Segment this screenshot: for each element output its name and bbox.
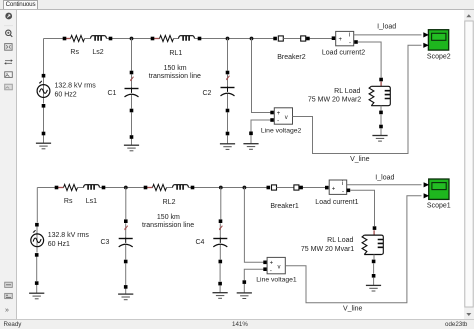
block Load current2 (332, 36, 336, 40)
ground under source2 (42, 132, 46, 136)
wire line voltage1 - to ground (244, 269, 263, 293)
capacitor C1 (130, 71, 134, 75)
tab bar (0, 0, 474, 10)
svg-text:Breaker1: Breaker1 (270, 203, 299, 210)
svg-text:RL Load: RL Load (334, 88, 360, 95)
node junction C4 (219, 186, 223, 190)
svg-text:I_load: I_load (377, 24, 396, 31)
ground C3 (124, 285, 128, 289)
svg-text:V_line: V_line (343, 305, 363, 312)
svg-text:i: i (349, 32, 350, 38)
svg-text:-: - (277, 119, 279, 125)
svg-text:»: » (5, 307, 9, 314)
wire to RL load1 (347, 189, 351, 193)
wire line voltage2 - to ground (251, 120, 271, 144)
svg-text:C2: C2 (203, 90, 212, 97)
voltage source AC2 (37, 81, 50, 98)
svg-text:75 MW 20 Mvar1: 75 MW 20 Mvar1 (301, 246, 354, 253)
svg-text:i: i (342, 181, 343, 187)
svg-text:V_line: V_line (350, 156, 370, 163)
svg-text:132.8 kV rms: 132.8 kV rms (48, 232, 90, 239)
svg-text:60 Hz2: 60 Hz2 (55, 92, 77, 99)
svg-text:+: + (277, 111, 281, 117)
wire V_line (bottom) (285, 196, 421, 303)
capacitor C2 (226, 71, 230, 75)
sidebar icon: browser circle (5, 13, 12, 20)
RL load1 parallel branch (373, 226, 377, 230)
svg-text:Ls1: Ls1 (86, 198, 97, 205)
svg-text:v: v (278, 265, 281, 271)
wire to RL load2 (354, 40, 358, 44)
wire C2 branch (227, 39, 229, 144)
svg-text:v: v (285, 115, 288, 121)
svg-text:-: - (342, 189, 344, 195)
resistor-inductor branch RL2 (146, 187, 153, 189)
left toolbar strip (0, 10, 17, 319)
svg-text:C1: C1 (108, 90, 117, 97)
svg-text:Rs: Rs (64, 198, 73, 205)
wire I_load (bottom) (347, 184, 422, 186)
svg-text:Scope2: Scope2 (427, 53, 451, 60)
wire + ground RL load2 (380, 114, 382, 135)
ground C2 (226, 132, 230, 136)
node junction C2 (226, 37, 230, 41)
resistor Rs (top) (65, 38, 71, 40)
breaker Breaker1 (267, 185, 303, 190)
sidebar icon: image grayed (5, 84, 13, 90)
block Load current1 (325, 186, 329, 190)
node junction C1 (130, 37, 134, 41)
scope Scope2 (428, 30, 448, 50)
wire C3 branch (125, 188, 127, 295)
svg-text:Ls2: Ls2 (92, 49, 103, 56)
wire source1 vertical (36, 188, 39, 294)
inductor Ls1 (84, 185, 100, 190)
svg-text:Line voltage2: Line voltage2 (261, 127, 302, 134)
block Line voltage2 (270, 111, 274, 115)
svg-text:transmission line: transmission line (142, 222, 194, 229)
block Line voltage1 (263, 261, 267, 265)
svg-text:-: - (270, 268, 272, 274)
sidebar icon: image (5, 72, 13, 78)
svg-text:RL1: RL1 (169, 50, 182, 57)
wire C1 branch (131, 39, 133, 146)
svg-text:transmission line: transmission line (149, 73, 201, 80)
sidebar icon: fit view (5, 44, 12, 51)
svg-text:132.8 kV rms: 132.8 kV rms (55, 83, 97, 90)
sidebar bottom icons (5, 282, 13, 287)
scope Scope1 (429, 179, 449, 199)
ground line voltage1 (243, 280, 247, 284)
svg-text:Line voltage1: Line voltage1 (256, 277, 297, 284)
svg-text:RL Load: RL Load (327, 237, 353, 244)
status bar (0, 319, 474, 329)
svg-text:+: + (270, 261, 274, 267)
wire bottom bus (37, 187, 325, 189)
svg-text:C3: C3 (101, 239, 110, 246)
svg-text:+: + (339, 37, 343, 43)
ground line voltage2 (249, 132, 253, 136)
svg-text:150 km: 150 km (157, 214, 180, 221)
svg-text:Breaker2: Breaker2 (277, 54, 306, 61)
svg-text:75 MW 20 Mvar2: 75 MW 20 Mvar2 (308, 97, 361, 104)
resistor-inductor branch RL1 (153, 38, 160, 40)
wire to line voltage2 + (252, 39, 271, 113)
svg-text:Rs: Rs (70, 49, 79, 56)
svg-text:-: - (349, 41, 351, 47)
ground under source1 (35, 281, 39, 285)
node junction line voltage2 feed (250, 37, 254, 41)
capacitor C4 (219, 219, 223, 223)
svg-text:Load current2: Load current2 (322, 50, 365, 57)
node junction C3 (124, 186, 128, 190)
breaker Breaker2 (273, 36, 309, 41)
capacitor C3 (124, 219, 128, 223)
voltage source AC1 (31, 230, 44, 247)
svg-text:+: + (332, 186, 336, 192)
svg-text:150 km: 150 km (164, 65, 187, 72)
svg-text:RL2: RL2 (163, 199, 176, 206)
svg-text:Scope1: Scope1 (427, 203, 451, 210)
sidebar icon: magnifier (6, 30, 13, 37)
wire to line voltage1 + (244, 188, 263, 263)
RL load2 parallel branch (379, 78, 383, 82)
wire top bus (44, 38, 333, 40)
ground C1 (130, 135, 134, 139)
inductor Ls2 (91, 36, 107, 41)
wire (85, 38, 91, 40)
svg-text:60 Hz1: 60 Hz1 (48, 241, 70, 248)
scrollbar parts (466, 14, 471, 17)
svg-text:C4: C4 (196, 239, 205, 246)
wire C4 branch (219, 188, 222, 293)
right scrollbar (464, 10, 474, 319)
wire V_line (top) (293, 45, 422, 153)
svg-text:I_load: I_load (375, 175, 394, 182)
sidebar icon: arrows (4, 59, 13, 64)
wire source2 vertical (43, 39, 45, 144)
svg-text:Load current1: Load current1 (315, 199, 358, 206)
wire I_load (top) (354, 34, 422, 36)
resistor Rs (bottom) (57, 187, 64, 189)
ground C4 (218, 282, 222, 286)
wire + ground RL load1 (373, 263, 375, 285)
node junction line voltage1 feed (243, 186, 247, 190)
